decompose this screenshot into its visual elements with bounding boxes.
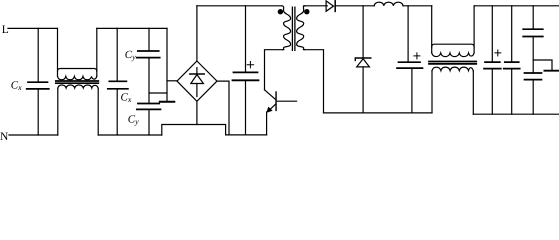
- svg-text:Cy: Cy: [128, 114, 139, 127]
- choke L1 core bars: [56, 81, 99, 83]
- capacitor C8 bottom lead: [511, 69, 513, 114]
- transistor Q1 base stub: [277, 100, 297, 102]
- capacitor C3 (Cy) plates: [137, 51, 160, 58]
- wire output top rail right: [474, 5, 559, 7]
- wire bottom rail middle: [98, 134, 162, 136]
- transformer T1 dot secondary: [304, 9, 309, 14]
- wire secondary bottom: [305, 50, 324, 113]
- wire negative bus step from N: [162, 125, 267, 136]
- wire bridge plus output up: [196, 6, 198, 61]
- capacitor C6 plates: [397, 62, 423, 68]
- transistor Q1 collector: [265, 90, 276, 100]
- label Cx right: [121, 91, 132, 104]
- capacitor C6 top lead: [407, 6, 409, 62]
- capacitor C8 plates: [504, 62, 520, 69]
- svg-text:Cy: Cy: [125, 49, 136, 62]
- label Cy bottom: [128, 114, 139, 127]
- transistor Q1 emitter arrow: [266, 107, 272, 113]
- svg-text:Cx: Cx: [121, 91, 132, 104]
- wire emitter down: [266, 112, 268, 135]
- transistor Q1 emitter: [269, 104, 276, 110]
- capacitor C5 plates: [233, 72, 259, 80]
- capacitor C5 plus sign: [247, 62, 253, 68]
- wire N bottom rail left: [9, 134, 58, 136]
- capacitor C9 top lead: [532, 6, 534, 29]
- bridge diode lead top: [196, 68, 198, 74]
- choke L3 bottom winding left lead: [431, 71, 433, 113]
- svg-text:Cx: Cx: [11, 80, 22, 93]
- transformer T1 dot primary: [278, 9, 283, 14]
- capacitor C6 bottom lead: [411, 68, 413, 113]
- capacitor C1 (Cx) top lead: [37, 28, 39, 82]
- choke L3 bottom winding scallops: [432, 67, 473, 71]
- choke L1 top winding scallops: [58, 76, 97, 80]
- capacitor C2 (Cx) plates: [108, 81, 128, 89]
- choke L1 bottom winding left lead: [57, 88, 59, 135]
- capacitor C3 (Cy) top lead: [148, 28, 150, 50]
- transformer T1 core: [292, 7, 295, 50]
- capacitor C4 (Cy) bottom lead: [148, 110, 150, 135]
- capacitor C10 plates: [525, 73, 542, 80]
- diode D1 output triangle: [326, 1, 333, 11]
- transformer T1 secondary winding: [297, 6, 305, 50]
- capacitor C2 (Cx) top lead: [116, 28, 118, 81]
- wire DC plus rail: [197, 5, 282, 7]
- choke L3 top winding straight edge: [432, 44, 474, 47]
- bridge diode triangle: [191, 75, 204, 84]
- label Cy top: [125, 49, 136, 62]
- transistor Q1 base bar: [275, 92, 277, 110]
- bridge diode lead bottom: [196, 84, 198, 97]
- capacitor C7 plus sign: [495, 50, 501, 56]
- choke L3 top winding right lead: [473, 6, 475, 53]
- capacitor C6 plus sign: [414, 53, 420, 59]
- capacitor C1 (Cx) bottom lead: [37, 89, 39, 135]
- wire bridge AC right: [217, 81, 229, 135]
- wire output bus right: [473, 113, 559, 115]
- capacitor C5 bottom lead: [245, 81, 247, 135]
- choke L1 top winding straight edge: [58, 69, 97, 72]
- wire top rail middle: [97, 27, 167, 29]
- choke L1 top winding left lead: [57, 28, 59, 76]
- label Cx left: [11, 80, 22, 93]
- diode D2 triangle: [357, 59, 370, 67]
- capacitor C5 bulk top lead: [245, 6, 247, 72]
- wire earth branch: [149, 92, 167, 94]
- choke L1 bottom winding right lead: [97, 88, 99, 135]
- choke L3 top winding left lead: [431, 6, 433, 53]
- wire secondary rail to inductor: [336, 5, 375, 7]
- capacitor C4 (Cy) plates: [137, 104, 161, 110]
- wire bridge bottom to bus: [196, 101, 198, 124]
- wire secondary top to diode: [304, 5, 328, 7]
- diode D2 bottom lead: [362, 67, 364, 113]
- ground output terminal bar: [544, 70, 559, 72]
- capacitor C1 (Cx) plates: [27, 82, 49, 89]
- bridge diode cathode bar: [190, 73, 204, 75]
- node L: [2, 24, 9, 36]
- wire Cy midpoint: [148, 58, 150, 103]
- wire inductor to choke2: [403, 5, 432, 7]
- capacitor C7 plates: [484, 62, 501, 69]
- transformer T1 primary winding: [282, 6, 291, 50]
- ground earth bar: [160, 101, 175, 103]
- capacitor C7 top lead: [491, 6, 493, 62]
- svg-text:L: L: [2, 24, 9, 36]
- capacitor C2 (Cx) bottom lead: [116, 89, 118, 135]
- choke L3 bottom winding right lead: [472, 71, 474, 114]
- inductor L2: [374, 2, 403, 6]
- wire output bus left: [324, 112, 433, 114]
- bridge rectifier B1 diamond: [177, 61, 217, 101]
- wire output terminal stub: [533, 60, 552, 70]
- capacitor C9 plates: [523, 29, 543, 36]
- diode D2 freewheel top lead: [362, 6, 364, 58]
- svg-text:N: N: [0, 131, 9, 141]
- choke L1 top winding right lead: [96, 28, 98, 76]
- choke L1 bottom winding scallops: [58, 85, 98, 88]
- wire C9 to C10: [532, 37, 534, 73]
- node N: [0, 131, 9, 143]
- wire rail corner down to bridge: [166, 28, 168, 101]
- diode D1 cathode bar: [334, 1, 336, 12]
- capacitor C10 bottom lead: [532, 80, 534, 114]
- choke L3 core bars: [429, 62, 476, 64]
- wire bridge AC left: [167, 80, 177, 82]
- diode D2 cathode bar: [355, 58, 371, 60]
- capacitor C7 bottom lead: [491, 69, 493, 114]
- choke L3 top winding scallops: [432, 53, 474, 57]
- wire primary bottom: [265, 50, 283, 90]
- capacitor C8 top lead: [511, 6, 513, 62]
- wire L top rail left: [8, 27, 58, 29]
